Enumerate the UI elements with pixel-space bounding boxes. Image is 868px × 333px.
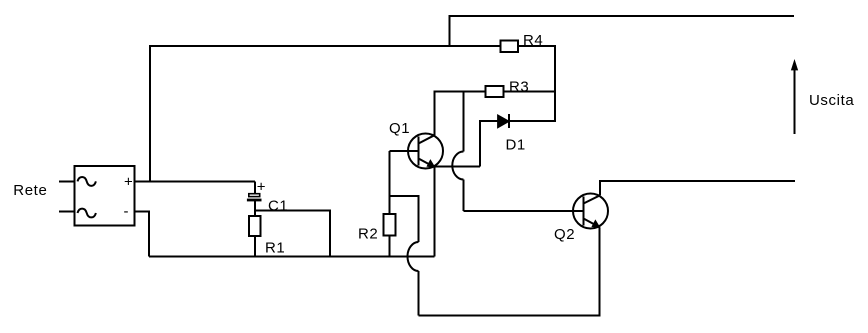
output arrow Uscita [791, 60, 797, 134]
svg-text:R1: R1 [265, 240, 285, 257]
resistor R3 [486, 86, 504, 97]
svg-text:Rete: Rete [13, 182, 47, 199]
wire C1 top vertical [254, 182, 256, 194]
wire + output to C1 [135, 181, 256, 183]
resistor R2 [384, 214, 396, 236]
wire right vertical [554, 45, 556, 121]
wire input stub bottom [59, 211, 75, 213]
wire hop A arc over emitter wire [452, 152, 463, 180]
svg-text:R2: R2 [358, 226, 378, 243]
svg-text:-: - [124, 203, 130, 220]
wire R1 bottom [254, 236, 256, 257]
wire branch at node to hop B [390, 196, 419, 242]
wire top right rail to output [600, 181, 795, 195]
capacitor C1 polarized [247, 179, 266, 200]
svg-text:R4: R4 [523, 32, 543, 49]
wire hop line upper (R3 rail to hop A) [463, 91, 465, 152]
svg-text:C1: C1 [268, 198, 288, 215]
wire input stub top [59, 181, 75, 183]
resistor R1 [249, 216, 261, 236]
wire below hop B to bottom rail [418, 271, 420, 316]
transistor Q1 [408, 134, 443, 169]
wire C1 junction to R2 net [255, 211, 330, 258]
wire top rail y46 [149, 45, 555, 47]
wire Q1 base horizontal [390, 150, 419, 152]
svg-text:D1: D1 [506, 137, 526, 154]
resistor R4 [501, 41, 519, 53]
wire R3 rail [435, 91, 557, 93]
wire hop line lower to Q2 base corner [463, 180, 465, 212]
svg-text:Uscita: Uscita [809, 92, 854, 109]
diode D1 [498, 114, 510, 128]
wire minus terminal loop [135, 212, 150, 257]
wire Q1 base vertical to R2 [389, 151, 391, 214]
wire bottom return rail y256 [149, 256, 435, 258]
svg-text:R3: R3 [509, 79, 529, 96]
wire C1 bottom to R1 [254, 201, 256, 216]
wire Q1 emitter vertical down [434, 167, 436, 257]
wire D1 rail [480, 120, 556, 122]
wire upper rail y16 [450, 16, 795, 47]
wire bottom rail [419, 315, 600, 317]
AC sine symbol top [78, 177, 96, 186]
wire left rail vertical [149, 46, 151, 182]
wire Q2 base horizontal [464, 210, 584, 212]
AC sine symbol bottom [78, 209, 96, 218]
wire hop B arc over bottom wire [408, 242, 419, 271]
svg-text:+: + [257, 179, 266, 196]
AC source box (transformer) [75, 166, 135, 226]
wire R2 bottom [389, 236, 391, 257]
svg-text:Q1: Q1 [389, 120, 410, 137]
wire D1 anode vertical [479, 120, 481, 167]
svg-text:+: + [124, 174, 133, 191]
transistor Q2 [573, 194, 608, 229]
wire Q2 emitter vertical [599, 227, 601, 316]
wire Q1 collector vertical [434, 91, 436, 136]
svg-text:Q2: Q2 [554, 226, 575, 243]
wire Q1 emitter to D1 branch horizontal [435, 166, 481, 168]
